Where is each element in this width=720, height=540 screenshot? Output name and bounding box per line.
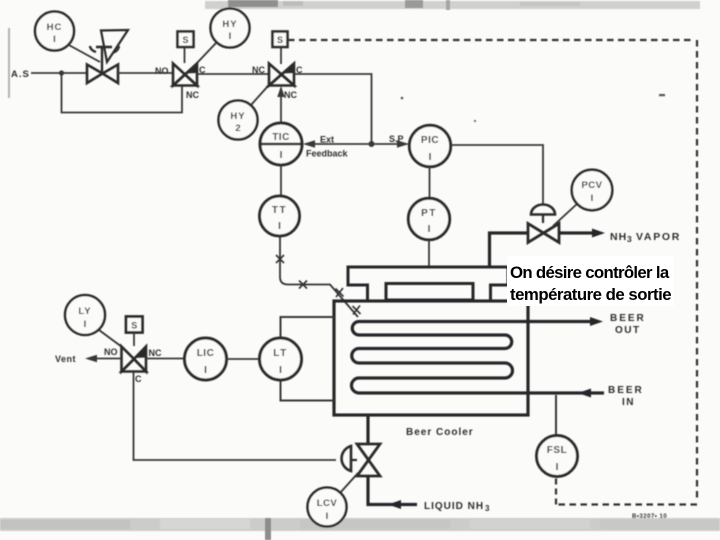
svg-text:LIQUID NH: LIQUID NH (424, 501, 484, 512)
wire PT tap to vessel dome (428, 240, 430, 266)
svg-text:I: I (280, 150, 283, 161)
instrument PIC (409, 125, 450, 166)
instrument LY (65, 295, 122, 347)
wire vent arrow (55, 354, 121, 364)
svg-text:BEER: BEER (610, 313, 646, 324)
svg-text:I: I (53, 34, 56, 45)
vessel internal weir (386, 284, 473, 301)
wire LT taps to vessel (281, 317, 335, 401)
svg-text:I: I (556, 462, 559, 473)
svg-text:Ext: Ext (320, 135, 334, 145)
capillary TT to coil (276, 236, 361, 317)
scan band top (205, 0, 700, 10)
svg-text:LIC: LIC (197, 348, 215, 359)
svg-text:NC: NC (186, 90, 199, 100)
svg-text:I: I (229, 31, 232, 42)
pipe LIQUID NH3 (368, 476, 490, 513)
svg-text:Feedback: Feedback (306, 149, 349, 159)
svg-text:A.S: A.S (11, 69, 30, 80)
svg-text:PIC: PIC (421, 135, 439, 146)
solenoid S2 (273, 32, 288, 65)
caption overlay (507, 256, 674, 306)
wire ext feedback arrow (303, 135, 372, 159)
pipe NH3 vapor arrow (559, 229, 681, 245)
instrument HY2 (219, 86, 269, 140)
node junction J1 (59, 70, 64, 75)
wire TIC output to XV2 NC arrow (277, 86, 285, 123)
instrument TT (260, 196, 300, 236)
wire A.S supply line (11, 69, 87, 80)
svg-text:NO: NO (155, 66, 169, 76)
svg-text:I: I (278, 221, 281, 232)
svg-text:VAPOR: VAPOR (636, 231, 681, 243)
svg-text:HY: HY (222, 19, 237, 30)
scan specks (209, 94, 665, 339)
wire XV3 NC to LIC (146, 358, 185, 360)
svg-text:I: I (428, 224, 431, 235)
pipe BEER IN arrow (578, 385, 644, 408)
svg-text:PCV: PCV (581, 180, 602, 191)
instrument LT (260, 338, 302, 380)
svg-text:2: 2 (235, 123, 240, 134)
wire XV1 to XV2 (197, 73, 269, 75)
instrument LCV (308, 473, 359, 527)
svg-text:I: I (326, 511, 329, 522)
wire XV3 C to LCV actuator (134, 372, 337, 460)
instrument PCV (553, 170, 612, 226)
svg-text:NC: NC (284, 90, 297, 100)
solenoid S1 (178, 32, 194, 64)
svg-text:B•3207• 10: B•3207• 10 (632, 514, 667, 520)
svg-text:3: 3 (485, 504, 490, 513)
svg-text:Vent: Vent (55, 354, 76, 364)
svg-text:S: S (182, 35, 188, 45)
coil serpentine (352, 322, 605, 394)
hand valve HV1 (87, 30, 128, 83)
instrument HC1 (35, 12, 100, 63)
svg-text:3: 3 (627, 234, 632, 244)
svg-text:NC: NC (252, 65, 265, 75)
svg-text:NO: NO (104, 347, 118, 357)
wire bypass to valve1 NC (62, 73, 183, 113)
svg-text:I: I (279, 365, 282, 376)
svg-text:LY: LY (78, 306, 91, 317)
solenoid S3 (126, 317, 143, 347)
svg-text:BEER: BEER (608, 385, 644, 396)
svg-text:LCV: LCV (317, 498, 338, 509)
wire HV1 to valve XV1 (118, 72, 173, 74)
svg-text:S: S (277, 35, 283, 45)
svg-text:TT: TT (272, 205, 287, 216)
svg-text:IN: IN (622, 397, 635, 408)
svg-text:On désire contrôler la: On désire contrôler la (510, 263, 670, 282)
signal dashed S2 to FSL loop (288, 40, 697, 505)
node junction J2 (369, 141, 375, 147)
valve XV2 three-way (252, 64, 303, 101)
svg-text:NC: NC (149, 348, 162, 358)
svg-text:TIC: TIC (272, 132, 290, 143)
svg-text:C: C (135, 374, 142, 384)
svg-text:HC: HC (47, 22, 63, 33)
wire LIC to LT (227, 358, 261, 360)
svg-text:température de sortie: température de sortie (510, 285, 671, 304)
valve XV3 three-way (104, 347, 162, 385)
wire TIC to TT (280, 165, 282, 196)
pipe BEER OUT arrow (590, 313, 646, 336)
svg-text:OUT: OUT (615, 325, 641, 336)
svg-text:I: I (84, 319, 87, 330)
valve PCV body (528, 205, 559, 243)
scan band bottom (0, 518, 720, 540)
wire XV2 C to junction (294, 74, 372, 144)
svg-text:I: I (591, 193, 594, 204)
svg-text:I: I (429, 152, 432, 163)
pipe NH3 riser (490, 233, 529, 267)
pipe vessel drain to LCV (366, 416, 369, 445)
wire beer-in tap to FSL (555, 395, 557, 435)
wire PIC to PT (429, 167, 431, 198)
svg-text:LT: LT (273, 348, 287, 359)
svg-text:S.P: S.P (389, 134, 404, 144)
instrument HY1 (197, 9, 250, 64)
instrument LIC (185, 338, 227, 380)
svg-text:FSL: FSL (547, 445, 567, 456)
svg-text:Beer Cooler: Beer Cooler (406, 427, 474, 438)
valve XV1 three-way (155, 64, 206, 101)
vessel dome hat (348, 267, 508, 300)
svg-text:PT: PT (421, 208, 437, 219)
wire PIC output to PCV (451, 145, 543, 204)
svg-text:S: S (131, 321, 137, 331)
wire S.P arrow to PIC (372, 134, 410, 148)
vessel shell (334, 301, 528, 415)
instrument TIC (260, 123, 302, 165)
instrument FSL (537, 436, 578, 477)
valve LCV body (342, 444, 380, 476)
svg-text:I: I (204, 365, 207, 376)
instrument PT (408, 198, 449, 239)
svg-text:HY: HY (230, 111, 245, 122)
scan edge left (8, 28, 10, 98)
svg-text:NH: NH (610, 231, 627, 243)
